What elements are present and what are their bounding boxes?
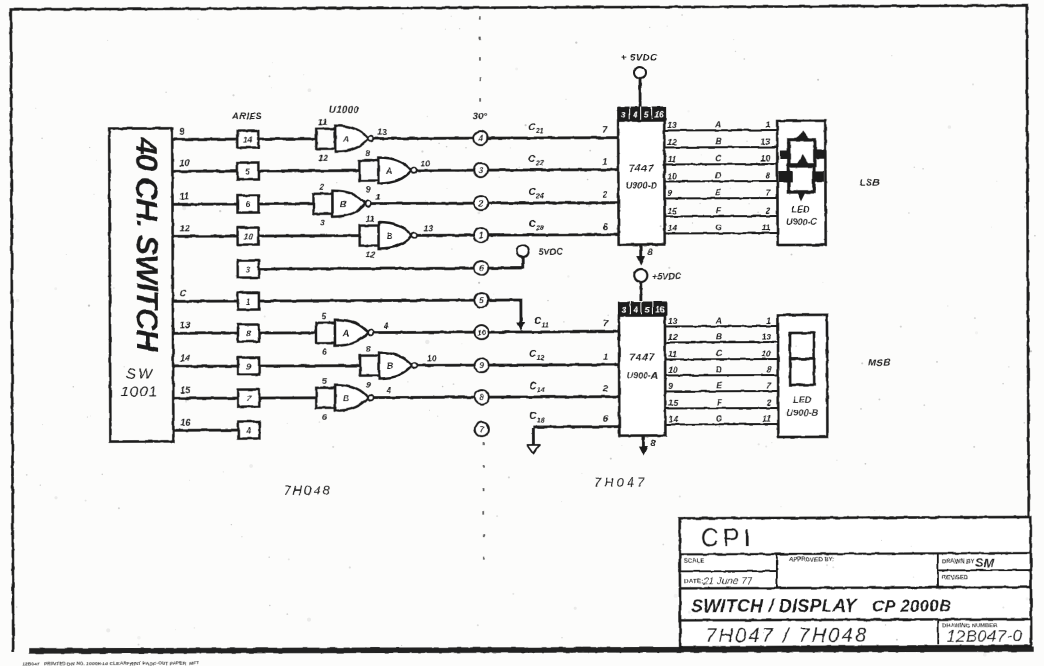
svg-text:14: 14 (243, 135, 253, 145)
wire SW1001 pin 13 to ARIES box 8 (row 7) (173, 320, 238, 333)
edge connector pin 7 (475, 422, 489, 436)
svg-text:5VDC: 5VDC (539, 247, 564, 257)
edge connector pin 8 (475, 390, 489, 404)
connector ARIES pin 10 (238, 228, 259, 245)
edge connector pin 3 (474, 163, 488, 177)
svg-text:11: 11 (762, 414, 771, 424)
svg-text:13: 13 (667, 120, 677, 130)
wire segment B: U900-D pin 12 to LED pin 13 (664, 136, 777, 147)
svg-text:12: 12 (537, 355, 545, 362)
svg-text:9: 9 (667, 188, 672, 198)
wire ARIES box 7 to gate (row 9) (259, 396, 316, 399)
wire U900-D pin 8 down with arrow (636, 244, 653, 265)
wire C18 to U900-A pin 6 (529, 411, 619, 427)
svg-text:C: C (715, 153, 722, 163)
svg-text:8: 8 (246, 329, 251, 339)
gate U1000-B pins 11,12 to 13 (row 4) (360, 213, 434, 259)
title block date (702, 576, 753, 587)
IC U900-A 7447 (619, 315, 665, 435)
gate U1000-B pins 5,6 to 4 (row 9) (316, 376, 391, 422)
svg-text:11: 11 (366, 214, 375, 224)
wire SW1001 pin 12 to ARIES box 10 (row 4) (173, 223, 238, 236)
wire segment E: U900-A pin 9 to LED pin 7 (665, 380, 778, 391)
label 30 degrees (473, 111, 488, 122)
svg-text:12: 12 (180, 223, 190, 233)
svg-text:9: 9 (668, 381, 673, 391)
svg-text:40 CH. SWITCH: 40 CH. SWITCH (129, 136, 165, 352)
U900-A header pin 5 (642, 302, 652, 316)
dashed boundary line bottom (482, 442, 485, 575)
svg-text:15: 15 (668, 206, 678, 216)
wire C12 connector to U900-A pin 1 (489, 349, 620, 366)
svg-text:4: 4 (477, 133, 483, 143)
svg-text:16: 16 (655, 305, 664, 314)
wire C22 connector to U900-D pin 1 (488, 154, 619, 171)
title block 7H047 / 7H048 (705, 625, 868, 648)
U900-D header pin 5 (641, 107, 651, 121)
svg-text:2: 2 (601, 190, 607, 200)
title block title SWITCH / DISPLAY CP 2000B (691, 595, 952, 616)
svg-text:3: 3 (621, 111, 626, 120)
svg-text:1: 1 (246, 297, 251, 307)
svg-text:10: 10 (427, 353, 437, 363)
svg-text:8: 8 (366, 344, 371, 354)
wire segment G: U900-A pin 14 to LED pin 11 (665, 413, 778, 424)
wire gate output 13 to edge connector (row 4) (417, 234, 473, 237)
svg-text:12: 12 (318, 153, 328, 163)
power +5VDC (connector 6 stub) (488, 245, 563, 269)
svg-text:3: 3 (478, 165, 483, 175)
svg-text:U900-B: U900-B (787, 408, 819, 418)
svg-text:9: 9 (179, 126, 184, 136)
svg-text:11: 11 (179, 191, 188, 201)
svg-text:21 June 77: 21 June 77 (702, 576, 753, 587)
svg-text:11: 11 (318, 117, 327, 127)
svg-text:1: 1 (603, 352, 608, 362)
gate U1000-B pins 2,3 to 1 (row 3) (313, 182, 380, 228)
svg-text:U900-C: U900-C (786, 217, 818, 227)
edge connector pin 2 (474, 196, 488, 210)
svg-text:1: 1 (602, 157, 607, 167)
svg-text:7447: 7447 (629, 351, 655, 363)
wire SW1001 pin 11 to ARIES box 6 (row 3) (172, 191, 237, 204)
gate U1000-A pins 8,9 to 10 (row 2) (359, 148, 430, 194)
connector ARIES pin 8 (238, 325, 259, 342)
svg-text:C: C (180, 288, 187, 298)
svg-text:4: 4 (632, 111, 638, 120)
svg-text:A: A (342, 134, 349, 144)
wire gate output 1 to edge connector (row 3) (371, 202, 473, 205)
svg-text:E: E (716, 187, 722, 197)
svg-text:A: A (715, 315, 722, 325)
svg-text:SM: SM (975, 555, 996, 570)
wire segment E: U900-D pin 9 to LED pin 7 (664, 187, 777, 198)
switch SW1001 "40 CH. SWITCH" (109, 128, 173, 441)
svg-text:LED: LED (793, 395, 812, 405)
wire segment F: U900-A pin 15 to LED pin 2 (665, 397, 778, 408)
svg-text:G: G (716, 413, 723, 423)
svg-text:10: 10 (420, 158, 430, 168)
svg-text:2: 2 (766, 398, 772, 408)
IC U900-D 7447 (618, 120, 664, 244)
svg-text:A: A (385, 166, 392, 176)
svg-text:B: B (340, 199, 347, 209)
svg-text:1: 1 (765, 120, 770, 130)
svg-text:B: B (386, 231, 393, 241)
U900-D header pin 3 (617, 107, 629, 121)
wire ARIES box 3 to connector (row 5) (259, 267, 474, 271)
wire ARIES box 5 to gate (row 2) (258, 169, 359, 172)
svg-text:2: 2 (765, 206, 771, 216)
wire C21 connector to U900-D pin 7 (488, 122, 619, 139)
svg-text:F: F (717, 397, 723, 407)
display U900-C LED (LSB) (777, 121, 825, 245)
svg-text:G: G (715, 222, 722, 232)
svg-text:9: 9 (246, 362, 251, 372)
svg-text:14: 14 (180, 353, 190, 363)
power +5VDC (U900-D) (621, 52, 658, 106)
edge connector pin 1 (474, 228, 488, 242)
svg-text:1: 1 (375, 192, 380, 202)
svg-text:14: 14 (668, 223, 678, 233)
svg-text:8: 8 (766, 365, 771, 375)
svg-text:E: E (716, 380, 722, 390)
svg-text:MSB: MSB (868, 358, 891, 369)
wire gate output 4 to edge connector (row 9) (374, 396, 474, 399)
wire segment D: U900-D pin 10 to LED pin 8 (664, 170, 777, 181)
svg-text:5: 5 (322, 376, 327, 386)
svg-text:16: 16 (655, 110, 664, 119)
title block text CPI (701, 524, 755, 552)
U900-A header pin 3 (618, 302, 630, 316)
svg-text:9: 9 (365, 185, 370, 195)
svg-text:B: B (715, 136, 721, 146)
wire SW1001 pin 16 to ARIES box 4 (row 10) (173, 417, 238, 430)
svg-text:8: 8 (650, 438, 655, 448)
title block small labels (684, 557, 998, 631)
svg-text:4: 4 (245, 426, 251, 436)
svg-text:4: 4 (633, 306, 639, 315)
label U1000 (329, 105, 360, 116)
wire ARIES box 9 to gate (row 8) (259, 364, 360, 367)
title block (680, 517, 1031, 647)
svg-text:CP 2000B: CP 2000B (872, 597, 952, 615)
connector ARIES pin 14 (237, 131, 258, 148)
label MSB (868, 358, 891, 369)
edge connector pin 9 (475, 358, 489, 372)
svg-text:5: 5 (645, 306, 650, 315)
wire SW1001 pin 14 to ARIES box 9 (row 8) (173, 353, 238, 366)
svg-text:2: 2 (602, 384, 608, 394)
power +5VDC (between chips) (634, 269, 681, 301)
svg-text:+5VDC: +5VDC (652, 271, 682, 281)
svg-text:18: 18 (537, 417, 545, 424)
wire segment A: U900-A pin 13 to LED pin 1 (665, 315, 778, 326)
svg-text:10: 10 (762, 349, 772, 359)
wire segment C: U900-D pin 11 to LED pin 10 (664, 153, 777, 164)
svg-text:13: 13 (668, 316, 678, 326)
connector ARIES pin 3 (238, 261, 259, 278)
wire gate output 4 to edge connector (row 7) (373, 331, 473, 334)
svg-text:U1000: U1000 (329, 105, 360, 116)
svg-text:B: B (343, 393, 350, 403)
wire segment C: U900-A pin 11 to LED pin 10 (665, 348, 778, 359)
svg-text:14: 14 (668, 414, 678, 424)
wire U900-A pin 8 down with arrow (639, 435, 656, 455)
svg-text:8: 8 (365, 149, 370, 159)
svg-text:15: 15 (180, 385, 191, 395)
svg-text:A: A (342, 328, 349, 338)
dashed boundary line top (479, 16, 481, 110)
svg-text:30°: 30° (473, 111, 488, 122)
wire connector 5 to node C11 (488, 299, 525, 331)
svg-text:24: 24 (535, 193, 544, 200)
svg-text:ARIES: ARIES (231, 111, 262, 121)
svg-text:9: 9 (479, 360, 484, 370)
connector ARIES pin 4 (238, 422, 259, 439)
svg-text:13: 13 (761, 137, 771, 147)
svg-text:U900-D: U900-D (626, 180, 658, 190)
wire ARIES box 14 to gate (row 1) (258, 137, 316, 140)
svg-text:12: 12 (668, 332, 678, 342)
wire C28 connector to U900-D pin 6 (488, 219, 619, 236)
wire segment D: U900-A pin 10 to LED pin 8 (665, 364, 778, 375)
svg-text:2: 2 (478, 198, 484, 208)
gate U1000-A pins 11,12 to 13 (row 1) (316, 117, 387, 163)
gate U1000-B pins 8,9 to 10 (row 8) (360, 343, 437, 389)
svg-text:4: 4 (383, 321, 389, 331)
svg-text:6: 6 (322, 347, 327, 357)
svg-text:6: 6 (479, 263, 484, 273)
wire ARIES box 6 to gate (row 3) (259, 202, 314, 205)
svg-text:11: 11 (668, 349, 677, 359)
wire ARIES box 1 to connector (row 6) (259, 299, 474, 303)
wire ARIES box 8 to gate (row 7) (259, 331, 316, 334)
wire gate output 13 to edge connector (row 1) (374, 137, 473, 140)
U900-D header pin 4 (630, 107, 640, 121)
connector ARIES pin 6 (237, 196, 258, 213)
svg-text:10: 10 (668, 365, 678, 375)
svg-text:3: 3 (246, 265, 251, 275)
svg-text:APPROVED BY:: APPROVED BY: (789, 557, 834, 563)
svg-text:D: D (716, 364, 722, 374)
svg-text:B: B (716, 331, 722, 341)
svg-text:16: 16 (180, 417, 191, 427)
wire SW1001 pin C to ARIES box 1 (row 6) (173, 288, 238, 301)
svg-text:+ 5VDC: + 5VDC (621, 52, 658, 63)
svg-text:8: 8 (479, 392, 484, 402)
edge connector pin 10 (474, 325, 488, 339)
svg-text:3: 3 (622, 306, 627, 315)
wire SW1001 pin 9 to ARIES box 14 (row 1) (172, 126, 237, 139)
svg-text:2: 2 (318, 182, 324, 192)
wire SW1001 pin 15 to ARIES box 7 (row 9) (173, 385, 238, 398)
svg-text:U900-A: U900-A (627, 370, 658, 380)
svg-text:12B047-0: 12B047-0 (946, 627, 1022, 646)
svg-text:6: 6 (246, 200, 251, 210)
label 7H048 (283, 483, 331, 498)
svg-text:11: 11 (667, 154, 676, 164)
svg-text:11: 11 (541, 322, 548, 329)
U900-A header pin 4 (631, 302, 641, 316)
svg-text:LED: LED (792, 204, 811, 214)
svg-text:6: 6 (322, 412, 327, 422)
label ARIES (231, 111, 262, 121)
svg-text:1: 1 (766, 316, 771, 326)
svg-text:10: 10 (243, 232, 253, 242)
wire SW1001 pin 10 to ARIES box 5 (row 2) (172, 158, 237, 171)
svg-text:SCALE: SCALE (684, 559, 704, 565)
wire C24 connector to U900-D pin 2 (488, 187, 619, 204)
wire ARIES box 10 to gate (row 4) (259, 234, 360, 237)
svg-text:1: 1 (479, 230, 484, 240)
svg-text:5: 5 (245, 167, 250, 177)
svg-text:DRAWN BY: DRAWN BY (942, 559, 975, 565)
gate U1000-A pins 5,6 to 4 (row 7) (316, 311, 389, 357)
svg-text:22: 22 (535, 160, 544, 167)
svg-text:LSB: LSB (859, 178, 880, 189)
wire C11 connector to U900-A pin 7 (488, 316, 619, 333)
svg-text:5: 5 (644, 111, 649, 120)
wire gate output 10 to edge connector (row 2) (417, 169, 473, 172)
svg-text:5: 5 (479, 295, 484, 305)
svg-text:SW: SW (126, 365, 154, 382)
svg-text:12: 12 (366, 250, 376, 260)
title block drawn by SM (975, 555, 996, 570)
edge connector pin 5 (474, 293, 488, 307)
svg-text:10: 10 (761, 154, 771, 164)
wire gate output 10 to edge connector (row 8) (418, 364, 474, 367)
wire segment A: U900-D pin 13 to LED pin 1 (664, 119, 777, 130)
svg-text:14: 14 (537, 387, 545, 394)
wire segment B: U900-A pin 12 to LED pin 13 (665, 331, 778, 342)
svg-text:5: 5 (322, 311, 327, 321)
svg-text:1001: 1001 (121, 383, 158, 400)
svg-text:13: 13 (377, 127, 387, 137)
connector ARIES pin 9 (238, 358, 259, 375)
svg-text:REVISED: REVISED (942, 575, 969, 581)
svg-text:4: 4 (385, 386, 391, 396)
svg-text:12B047 PRINTED ON NO. 1000H-: 12B047 PRINTED ON NO. 1000H-10 CLEARPRIN… (22, 661, 199, 666)
ground symbol (C18) (527, 428, 539, 454)
edge connector pin 4 (474, 131, 488, 145)
edge connector pin 6 (474, 261, 488, 275)
svg-text:15: 15 (668, 398, 678, 408)
svg-text:A: A (714, 119, 721, 129)
svg-text:F: F (716, 205, 722, 215)
svg-text:7H048: 7H048 (283, 483, 331, 498)
svg-text:7H047: 7H047 (594, 475, 647, 490)
svg-text:8: 8 (766, 171, 771, 181)
svg-text:10: 10 (667, 171, 677, 181)
svg-text:11: 11 (762, 223, 771, 233)
svg-text:12: 12 (667, 137, 677, 147)
svg-text:13: 13 (762, 332, 772, 342)
svg-text:9: 9 (366, 380, 371, 390)
U900-A header pin 16 (653, 301, 667, 315)
connector ARIES pin 5 (237, 163, 258, 180)
connector ARIES pin 7 (238, 390, 259, 407)
svg-text:7H047 / 7H048: 7H047 / 7H048 (705, 625, 868, 648)
U900-D header pin 16 (652, 106, 666, 120)
svg-text:7447: 7447 (629, 162, 655, 174)
wire segment F: U900-D pin 15 to LED pin 2 (665, 205, 778, 216)
label 7H047 (594, 475, 647, 490)
svg-text:28: 28 (535, 225, 544, 232)
svg-text:B: B (387, 361, 394, 371)
wire segment G: U900-D pin 14 to LED pin 11 (665, 222, 778, 233)
svg-text:C: C (716, 348, 723, 358)
display U900-B LED (MSB) (778, 315, 827, 437)
svg-text:21: 21 (535, 128, 544, 135)
connector ARIES pin 1 (238, 293, 259, 310)
svg-text:10: 10 (477, 328, 486, 337)
wire C14 connector to U900-A pin 2 (489, 381, 620, 398)
label LSB (859, 178, 880, 189)
svg-text:10: 10 (179, 158, 189, 168)
svg-text:D: D (715, 170, 721, 180)
title block drawing number 12B047-0 (946, 627, 1022, 646)
svg-text:8: 8 (648, 247, 653, 257)
svg-text:3: 3 (320, 218, 325, 228)
svg-text:13: 13 (180, 320, 190, 330)
svg-text:DATE:: DATE: (684, 578, 703, 585)
svg-text:CPI: CPI (701, 524, 755, 552)
